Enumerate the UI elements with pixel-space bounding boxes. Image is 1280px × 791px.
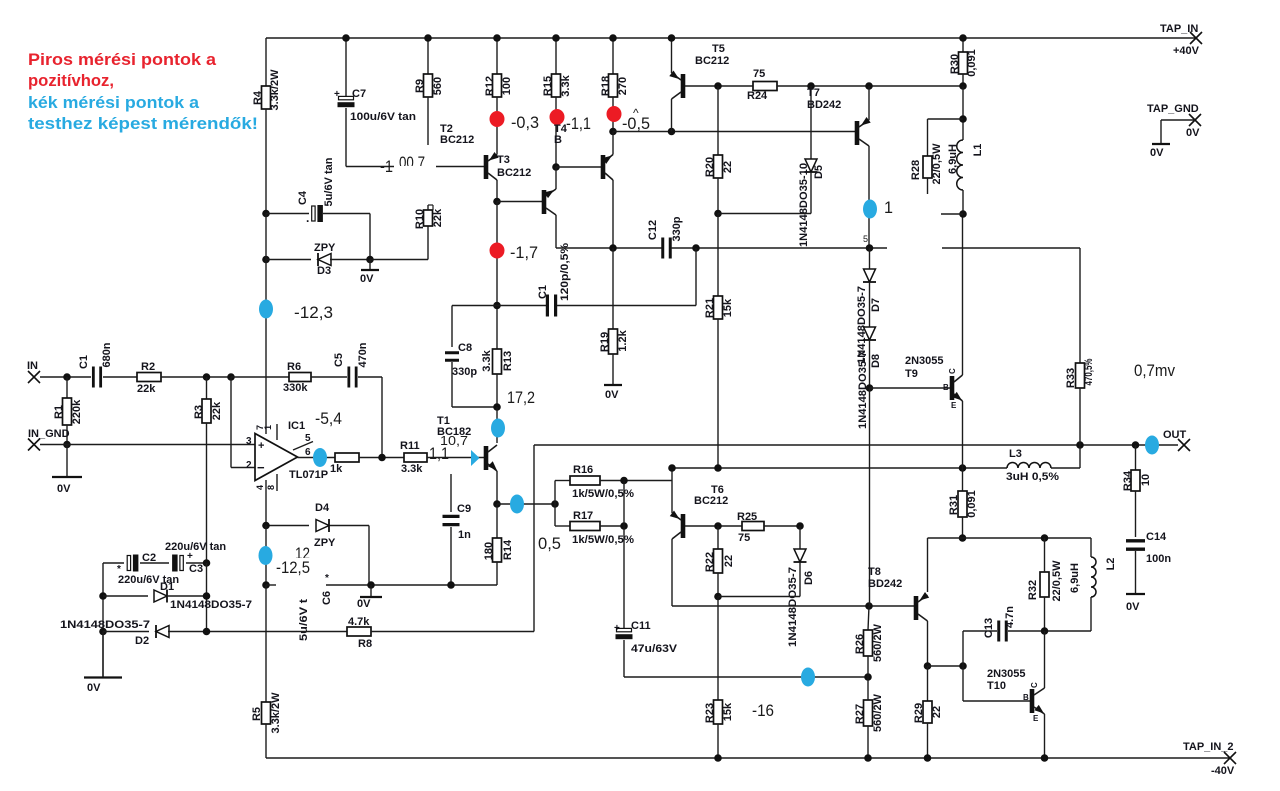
- resistor R32: [1040, 572, 1049, 597]
- inductor L1: [957, 140, 963, 190]
- wire C11 column: [623, 526, 625, 628]
- svg-text:R29: R29: [913, 703, 925, 723]
- svg-text:R13: R13: [502, 351, 514, 371]
- capacitor C1: [92, 367, 95, 388]
- wire R26: [868, 606, 869, 630]
- resistor R20: [717, 86, 719, 155]
- wire C7 to T2 base: [345, 108, 347, 167]
- resistor R17: [570, 522, 600, 531]
- svg-text:470,5%: 470,5%: [1083, 358, 1095, 385]
- svg-text:.: .: [306, 211, 309, 225]
- measure point blue 17,2: [491, 419, 505, 438]
- svg-text:C7: C7: [352, 88, 366, 100]
- svg-text:BC182: BC182: [437, 426, 471, 438]
- svg-text:75: 75: [753, 68, 765, 80]
- wire R5 to bottom rail: [265, 724, 267, 758]
- svg-text:−: −: [257, 460, 265, 475]
- wire T9 emitter: [962, 401, 964, 468]
- svg-text:C14: C14: [1146, 531, 1167, 543]
- wire T6 collector: [671, 539, 673, 606]
- node junction R16 right: [620, 477, 628, 485]
- wire C2 to C3: [140, 562, 169, 564]
- op-amp pin 4 wire: [265, 480, 267, 526]
- wire R9 bottom stub: [427, 97, 429, 145]
- svg-text:T7: T7: [807, 87, 820, 99]
- wire R33 bottom: [1079, 388, 1081, 445]
- wire T6 base row: [685, 525, 742, 527]
- wire T6 emitter: [671, 481, 673, 514]
- op-amp pin 8 stub: [276, 474, 278, 491]
- wire T5 base row y86: [685, 85, 753, 87]
- wire R21 column: [717, 214, 719, 297]
- node junction T7 emitter: [865, 82, 873, 90]
- measure point blue op-amp out: [313, 448, 327, 467]
- capacitor C8: [445, 351, 459, 354]
- node junction T10 collector/C13: [1041, 627, 1049, 635]
- svg-text:1.2k: 1.2k: [617, 329, 629, 351]
- svg-text:T10: T10: [987, 680, 1006, 692]
- svg-text:-0,3: -0,3: [511, 113, 539, 132]
- node junction R20 top: [714, 82, 722, 90]
- node junction T3 collector row: [496, 202, 498, 350]
- svg-text:220k: 220k: [71, 399, 83, 424]
- measure point red -1,1: [550, 109, 565, 125]
- node junction T9 emitter/R31: [959, 464, 967, 472]
- op-amp pin 7 wire: [265, 423, 267, 434]
- svg-text:22: 22: [723, 555, 735, 567]
- node junction R26/R27: [864, 673, 872, 681]
- svg-text:-16: -16: [752, 701, 774, 720]
- wire TAP_GND to ground: [1161, 119, 1195, 121]
- node junction R19 top: [609, 244, 617, 252]
- svg-text:TAP_IN: TAP_IN: [1160, 23, 1198, 35]
- wire R32 top: [1044, 538, 1046, 572]
- wire T9 base: [870, 387, 951, 389]
- svg-text:330p: 330p: [671, 216, 683, 241]
- resistor R12: [493, 74, 502, 97]
- svg-text:C: C: [1030, 682, 1039, 688]
- op-amp pin 1 stub: [276, 424, 278, 440]
- ground 0V at C6: [370, 585, 372, 597]
- wire T4 emitter: [555, 167, 557, 189]
- node junction T9 base: [866, 384, 874, 392]
- node junction D3/C4/ground: [366, 256, 374, 264]
- wire IN_GND to op-amp +: [40, 444, 255, 446]
- wire R26 bottom: [867, 656, 869, 677]
- svg-text:ZPY: ZPY: [314, 537, 336, 549]
- svg-text:3.3k/2W: 3.3k/2W: [269, 69, 281, 111]
- node junction R28 top: [959, 115, 967, 123]
- wire R18 to junction: [612, 97, 614, 132]
- svg-text:22: 22: [931, 706, 943, 718]
- node junction R3/C3: [203, 559, 211, 567]
- svg-text:E: E: [951, 401, 957, 410]
- wire R22 bottom: [717, 573, 719, 597]
- diode D3 ZPY: [318, 254, 331, 266]
- capacitor C14: [1126, 539, 1145, 542]
- svg-text:0,091: 0,091: [966, 49, 978, 77]
- svg-text:680n: 680n: [101, 342, 113, 367]
- svg-text:R15: R15: [542, 76, 554, 96]
- svg-text:BC212: BC212: [695, 55, 729, 67]
- svg-text:-1,7: -1,7: [510, 243, 538, 262]
- transistor T4 BC182: [601, 155, 606, 179]
- wire R21 bottom: [717, 319, 719, 468]
- svg-text:100n: 100n: [1146, 553, 1171, 565]
- node junction D3 row: [262, 256, 270, 264]
- svg-text:560: 560: [432, 77, 444, 95]
- wire junction to R6: [231, 376, 289, 378]
- wire R11 to T1 base: [427, 457, 484, 459]
- svg-text:C11: C11: [631, 620, 651, 632]
- wire D8 junction down to T8 base row: [869, 388, 871, 606]
- resistor R9: [427, 38, 429, 74]
- svg-text:ZPY: ZPY: [314, 242, 336, 254]
- node junction R33/L3: [1076, 441, 1084, 449]
- svg-text:D6: D6: [803, 571, 815, 585]
- resistor R8: [347, 627, 371, 636]
- wire C3 to R3 column: [186, 562, 207, 564]
- resistor R25: [742, 522, 764, 531]
- svg-text:C5: C5: [333, 353, 345, 367]
- wire column to C6 row: [265, 526, 267, 586]
- wire T6 emitter rail y468: [672, 467, 1007, 469]
- node junction C1 row: [493, 302, 501, 310]
- wire R2 to junction: [161, 376, 231, 378]
- svg-text:5: 5: [863, 234, 868, 244]
- svg-text:R8: R8: [358, 638, 372, 650]
- svg-text:T9: T9: [905, 368, 918, 380]
- wire C6 row to ground junction: [326, 584, 451, 586]
- wire C4 row right to corner: [323, 213, 370, 215]
- measure point blue OUT: [1145, 436, 1159, 455]
- svg-text:testhez képest mérendők!: testhez képest mérendők!: [28, 115, 258, 133]
- svg-text:C3: C3: [189, 563, 203, 575]
- wire R10 top stub: [427, 205, 429, 210]
- resistor R21: [714, 296, 723, 319]
- svg-text:330p: 330p: [452, 366, 477, 378]
- capacitor C9: [450, 474, 452, 512]
- svg-text:Piros mérési pontok a: Piros mérési pontok a: [28, 51, 217, 69]
- capacitor C12 330p: [661, 238, 664, 259]
- wire R24 to R30: [777, 85, 963, 87]
- op-amp IC1 TL071P: [255, 434, 298, 481]
- svg-text:R21: R21: [704, 298, 716, 318]
- svg-text:-1,1: -1,1: [566, 114, 591, 133]
- svg-text:R32: R32: [1027, 580, 1039, 600]
- svg-text:560/2W: 560/2W: [872, 623, 884, 662]
- node junction R31 bottom: [959, 534, 967, 542]
- svg-text:+: +: [258, 440, 264, 452]
- wire R10 bottom: [427, 226, 429, 260]
- resistor R14: [493, 538, 502, 562]
- svg-text:^: ^: [633, 106, 639, 120]
- svg-text:1: 1: [884, 198, 893, 217]
- svg-text:L1: L1: [972, 144, 984, 157]
- wire C1 to R2: [103, 376, 137, 378]
- node junction T4 emitter: [552, 163, 560, 171]
- svg-text:6: 6: [305, 447, 311, 458]
- svg-text:0,7mv: 0,7mv: [1134, 361, 1175, 380]
- svg-text:IN_GND: IN_GND: [28, 428, 70, 440]
- resistor R27: [864, 700, 873, 726]
- svg-text:-12,5: -12,5: [276, 558, 310, 577]
- wire D3 row left: [266, 259, 311, 261]
- wire C12 row right segment to R33 corner: [942, 247, 1080, 249]
- svg-text:BC212: BC212: [694, 495, 728, 507]
- svg-text:R20: R20: [704, 157, 716, 177]
- resistor R1: [66, 377, 68, 398]
- node junction R22 top: [714, 522, 722, 530]
- svg-text:R33: R33: [1065, 368, 1077, 388]
- wire L2 bottom: [1090, 597, 1092, 631]
- svg-text:D4: D4: [315, 502, 330, 514]
- svg-text:BC212: BC212: [497, 167, 531, 179]
- wire y538 row: [928, 537, 1092, 539]
- svg-text:1k: 1k: [330, 463, 343, 475]
- svg-text:B: B: [1023, 693, 1029, 702]
- resistor R5: [262, 702, 271, 724]
- node junction L1 bottom: [959, 210, 967, 218]
- svg-text:1k/5W/0,5%: 1k/5W/0,5%: [572, 534, 634, 546]
- wire T3 base: [497, 201, 542, 203]
- wire C9 bottom: [450, 527, 452, 585]
- capacitor C13: [963, 630, 997, 632]
- svg-text:R6: R6: [287, 361, 301, 373]
- svg-text:120p/0,5%: 120p/0,5%: [559, 243, 571, 301]
- svg-text:22/0,5W: 22/0,5W: [931, 143, 943, 185]
- svg-text:BC212: BC212: [440, 134, 474, 146]
- resistor R6: [289, 373, 311, 382]
- node junction R21 bottom: [714, 464, 722, 472]
- svg-text:R19: R19: [599, 332, 611, 352]
- node junction D5 bottom row: [714, 210, 722, 218]
- node junction D7 top: [866, 244, 874, 252]
- svg-text:3.3k: 3.3k: [560, 74, 572, 96]
- capacitor C2: [127, 556, 130, 571]
- svg-text:R30: R30: [949, 54, 961, 74]
- node junction R3 top: [203, 373, 211, 381]
- svg-text:C12: C12: [647, 220, 659, 240]
- node junction R32 top: [1041, 534, 1049, 542]
- svg-text:10: 10: [1140, 474, 1152, 486]
- measure point red -1,7: [490, 243, 505, 259]
- svg-text:C1: C1: [78, 355, 90, 369]
- wire output line OUT: [534, 444, 1178, 446]
- svg-text:R2: R2: [141, 361, 155, 373]
- measure point blue -12,3: [259, 300, 273, 319]
- node junction R30/R24 row: [959, 82, 967, 90]
- wire R28 bottom stub: [927, 178, 929, 194]
- svg-text:3uH 0,5%: 3uH 0,5%: [1006, 471, 1059, 483]
- svg-text:IN: IN: [27, 360, 38, 372]
- svg-text:R17: R17: [573, 510, 593, 522]
- svg-text:D7: D7: [870, 298, 882, 312]
- svg-text:BD242: BD242: [868, 578, 902, 590]
- wire R6 to C5: [311, 376, 347, 378]
- svg-text:D3: D3: [317, 265, 331, 277]
- diode D7 1N4148: [869, 248, 871, 270]
- svg-text:0,091: 0,091: [966, 490, 978, 518]
- resistor R34: [1135, 445, 1137, 470]
- wire R32 bottom: [1044, 597, 1046, 631]
- capacitor C5: [347, 367, 350, 388]
- svg-text:C9: C9: [457, 503, 471, 515]
- svg-text:47u/63V: 47u/63V: [631, 643, 678, 655]
- wire T7 collector: [868, 146, 870, 248]
- measure point blue -16 row: [801, 668, 815, 687]
- svg-text:3.3k: 3.3k: [481, 349, 493, 371]
- svg-text:4: 4: [255, 485, 265, 490]
- wire R30 bottom: [962, 74, 964, 86]
- wire T10 collector: [1044, 631, 1046, 688]
- wire R12 column: [496, 38, 498, 74]
- wire bottom -40V rail: [266, 757, 1230, 759]
- node junction T10/rail: [1041, 754, 1049, 762]
- node junction T8 collector: [924, 662, 932, 670]
- svg-text:C8: C8: [458, 342, 472, 354]
- svg-text:R16: R16: [573, 464, 593, 476]
- svg-text:4.7k: 4.7k: [348, 616, 370, 628]
- capacitor C4: [312, 206, 315, 221]
- node junction C6 ground: [367, 581, 375, 589]
- wire T7 emitter: [868, 86, 870, 120]
- wire C13 right: [1008, 630, 1045, 632]
- svg-text:17,2: 17,2: [507, 388, 535, 407]
- ground 0V R19: [612, 354, 614, 385]
- wire R14: [496, 504, 498, 538]
- wire C13 bracket: [962, 631, 964, 701]
- inductor L2: [1090, 538, 1092, 557]
- wire C5 to corner down: [358, 376, 382, 378]
- svg-text:2N3055: 2N3055: [987, 668, 1026, 680]
- svg-text:C1: C1: [537, 285, 549, 299]
- svg-text:470n: 470n: [357, 342, 369, 367]
- svg-text:*: *: [325, 573, 329, 584]
- svg-text:75: 75: [738, 532, 750, 544]
- capacitor C1 comp 120p: [497, 305, 546, 307]
- wire T9 collector: [962, 214, 964, 375]
- wire D1 to R3 column: [168, 595, 207, 597]
- svg-text:22/0,5W: 22/0,5W: [1051, 560, 1063, 602]
- svg-text:B: B: [554, 134, 562, 146]
- node junction feedback/R11: [378, 454, 386, 462]
- wire R20 bottom: [717, 178, 719, 214]
- svg-text:TAP_GND: TAP_GND: [1147, 103, 1199, 115]
- svg-text:D2: D2: [135, 635, 149, 647]
- measure point blue 1: [863, 200, 877, 219]
- svg-text:IC1: IC1: [288, 420, 305, 432]
- resistor R11: [404, 453, 427, 462]
- wire C8 bottom: [451, 362, 453, 407]
- svg-text:5u/6V tan: 5u/6V tan: [323, 157, 335, 206]
- diode D8 1N4148: [869, 282, 871, 328]
- node junction R1/IN_GND: [63, 441, 71, 449]
- node junction D6 top: [796, 522, 804, 530]
- svg-text:R5: R5: [251, 707, 263, 721]
- wire R4 column top: [265, 38, 267, 86]
- svg-text:3.3k: 3.3k: [401, 463, 423, 475]
- svg-text:0,5: 0,5: [538, 534, 561, 553]
- wire feedback jog to op-amp inverting input: [230, 377, 232, 468]
- wire R18 column: [612, 38, 614, 74]
- wire R8 to feedback corner: [371, 631, 534, 633]
- svg-text:270: 270: [617, 77, 629, 95]
- resistor R28: [923, 156, 932, 178]
- svg-text:100u/6V tan: 100u/6V tan: [350, 111, 416, 123]
- ground 0V under D3 row: [369, 260, 371, 271]
- wire R25 right: [764, 525, 800, 527]
- svg-text:R18: R18: [600, 76, 612, 96]
- resistor 1k op-amp output: [335, 453, 359, 462]
- svg-text:R14: R14: [502, 539, 514, 560]
- wire IN to C1: [40, 376, 91, 378]
- svg-text:R31: R31: [948, 495, 960, 515]
- svg-text:TAP_IN_2: TAP_IN_2: [1183, 741, 1234, 753]
- wire L1 bottom: [962, 190, 964, 214]
- wire T5 collector: [671, 99, 673, 132]
- svg-text:0V: 0V: [57, 483, 71, 495]
- svg-text:0V: 0V: [1186, 127, 1200, 139]
- svg-text:R10: R10: [414, 209, 426, 229]
- svg-text:T8: T8: [868, 566, 881, 578]
- svg-text:15k: 15k: [722, 702, 734, 721]
- wire C11 bottom: [623, 640, 625, 677]
- wire D3 row to R10: [370, 259, 428, 261]
- svg-text:+: +: [614, 623, 620, 634]
- node junction R13/C8/T1: [493, 403, 501, 411]
- svg-text:C2: C2: [142, 552, 156, 564]
- svg-text:OUT: OUT: [1163, 429, 1187, 441]
- wire L3 to corner up: [1051, 467, 1080, 469]
- wire to L1 top: [962, 86, 964, 140]
- wire C8 top corner: [452, 305, 497, 307]
- resistor R22: [717, 526, 719, 549]
- wire feedback riser x534: [533, 445, 535, 632]
- wire R28 top branch: [928, 118, 964, 120]
- svg-text:8: 8: [266, 485, 276, 490]
- svg-text:-5,4: -5,4: [315, 409, 342, 428]
- capacitor C6 (erased plates): [321, 591, 333, 605]
- node junction R34: [1132, 441, 1140, 449]
- resistor R4: [262, 86, 271, 109]
- wire y666 link: [928, 665, 964, 667]
- svg-text:2: 2: [246, 460, 252, 471]
- wire D1 row left: [103, 595, 148, 597]
- resistor R13: [493, 349, 502, 374]
- svg-text:1N4148DO35-10: 1N4148DO35-10: [798, 163, 810, 247]
- node junction R17/C11: [620, 522, 628, 530]
- resistor R23: [714, 700, 723, 724]
- wire R22 junction down: [717, 597, 719, 701]
- node junction R1 top: [63, 373, 71, 381]
- wire R13 bottom: [496, 374, 498, 407]
- svg-text:R24: R24: [747, 90, 768, 102]
- wire left column C2-D1-D2: [102, 563, 104, 677]
- measure point blue 0,5 row: [510, 495, 524, 514]
- wire R23 to rail: [717, 724, 719, 758]
- node junction C12/riser: [692, 244, 700, 252]
- measure point red -0,5: [607, 106, 622, 122]
- svg-text:-1: -1: [380, 157, 393, 176]
- op-amp pin 5 stub: [293, 442, 313, 451]
- wire D2 row right: [168, 631, 347, 633]
- wire C1 row right: [557, 305, 696, 307]
- resistor R19: [612, 248, 614, 329]
- capacitor C3: [172, 555, 178, 572]
- svg-text:R12: R12: [484, 76, 496, 96]
- svg-text:+40V: +40V: [1173, 45, 1200, 57]
